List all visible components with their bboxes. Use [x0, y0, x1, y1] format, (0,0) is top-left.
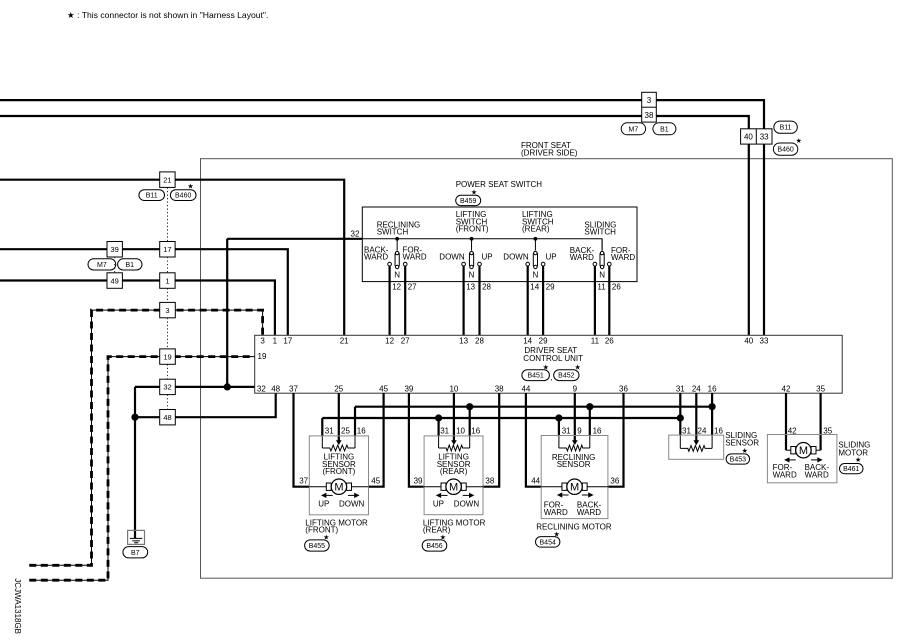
- connector label B459: [456, 195, 481, 205]
- svg-text:25: 25: [334, 385, 343, 394]
- svg-text:17: 17: [283, 336, 292, 345]
- wire: pin 35 to sliding motor: [819, 393, 821, 450]
- connector M7/B1 pins 3,38: [642, 92, 657, 122]
- wire: pin 1 feed: [0, 281, 275, 336]
- svg-text:B461: B461: [843, 466, 859, 473]
- svg-text:★: ★: [187, 183, 193, 191]
- svg-text:21: 21: [340, 336, 349, 345]
- svg-text:49: 49: [111, 276, 119, 285]
- connector B11/B460 pin 17: [160, 242, 175, 258]
- wire: to body ground: [134, 417, 136, 538]
- svg-text:38: 38: [495, 385, 504, 394]
- svg-text:39: 39: [111, 245, 119, 254]
- sliding switch element: [601, 239, 603, 251]
- wire: pin 31 to sliding sensor: [679, 393, 681, 435]
- svg-text:DOWN: DOWN: [439, 253, 465, 262]
- svg-text:31: 31: [562, 426, 571, 435]
- svg-text:1: 1: [165, 276, 169, 285]
- svg-text:27: 27: [408, 283, 417, 292]
- direction arrows lifting rear: [441, 494, 447, 496]
- svg-text:WARD: WARD: [805, 471, 829, 480]
- svg-text:3: 3: [165, 306, 169, 315]
- motor M lifting rear: [441, 483, 446, 490]
- svg-text:3: 3: [647, 96, 652, 105]
- motor leads lifting rear: [424, 486, 483, 488]
- svg-text:B451: B451: [527, 373, 543, 380]
- reclining motor box: [541, 436, 608, 519]
- svg-text:SWITCH: SWITCH: [584, 228, 616, 237]
- svg-text:DOWN: DOWN: [339, 499, 365, 508]
- connector B11/B460 pin 19: [160, 349, 176, 364]
- switch internal bus: [362, 239, 602, 251]
- svg-text:(REAR): (REAR): [522, 225, 550, 234]
- junction: rear sensor 31: [435, 414, 442, 421]
- wire: pin 44 to reclining motor: [526, 393, 541, 487]
- svg-text:DOWN: DOWN: [503, 253, 529, 262]
- svg-text:42: 42: [782, 385, 791, 394]
- svg-text:33: 33: [760, 336, 769, 345]
- svg-text:WARD: WARD: [403, 253, 427, 262]
- svg-text:32: 32: [351, 230, 360, 239]
- svg-text:(REAR): (REAR): [440, 467, 468, 476]
- svg-text:(FRONT): (FRONT): [456, 225, 489, 234]
- ground label B7: [123, 547, 148, 558]
- svg-text:N: N: [599, 271, 605, 280]
- svg-text:26: 26: [605, 336, 614, 345]
- wire: pin 32 ground link: [135, 386, 255, 388]
- svg-text:CONTROL UNIT: CONTROL UNIT: [523, 354, 583, 363]
- svg-text:B1: B1: [660, 126, 669, 133]
- svg-text:32: 32: [257, 385, 266, 394]
- svg-text:16: 16: [714, 426, 723, 435]
- svg-text:MOTOR: MOTOR: [838, 448, 868, 457]
- svg-text:★: ★: [796, 137, 802, 145]
- bus: sensor supply (pin 16): [355, 406, 712, 408]
- motor leads lifting front: [309, 486, 368, 488]
- svg-text:35: 35: [823, 427, 832, 436]
- svg-text:25: 25: [341, 426, 350, 435]
- wire: pin 17 feed: [0, 249, 288, 335]
- svg-text:N: N: [394, 271, 400, 280]
- svg-text:B11: B11: [780, 125, 792, 132]
- svg-text:33: 33: [760, 133, 769, 142]
- resistor: lifting sensor rear: [439, 445, 470, 451]
- svg-text:WARD: WARD: [364, 253, 388, 262]
- svg-text:38: 38: [485, 477, 494, 486]
- svg-text:17: 17: [163, 245, 171, 254]
- svg-text:WARD: WARD: [577, 508, 601, 517]
- svg-text:,: ,: [550, 373, 552, 382]
- svg-text:SENSOR: SENSOR: [557, 460, 591, 469]
- wire: pin 10 to lifting sensor rear wiper: [453, 393, 455, 440]
- svg-text:42: 42: [788, 427, 797, 436]
- svg-text:38: 38: [645, 111, 654, 120]
- wire: pin 21 feed: [0, 180, 344, 336]
- sliding sensor box: [669, 435, 724, 459]
- wire: lifting sensor rear pin 31: [438, 418, 440, 436]
- svg-text:40: 40: [744, 133, 753, 142]
- svg-text:(DRIVER SIDE): (DRIVER SIDE): [521, 148, 578, 157]
- driver seat control unit U1 box: [255, 335, 843, 393]
- resistor: lifting sensor front: [322, 445, 355, 451]
- svg-text:M: M: [570, 482, 579, 494]
- resistor: reclining sensor: [559, 445, 590, 451]
- svg-text:B454: B454: [540, 539, 556, 546]
- motor M lifting front: [326, 483, 331, 490]
- wire: lifting sensor front pin 31: [321, 418, 323, 436]
- motor leads reclining: [541, 486, 608, 488]
- connector B11/B460 pin 1: [160, 273, 175, 289]
- svg-text:M7: M7: [629, 126, 639, 133]
- connector label M7 (left): [88, 259, 116, 270]
- svg-text:16: 16: [708, 385, 717, 394]
- svg-text:B459: B459: [460, 198, 476, 205]
- sliding motor box: [767, 435, 837, 483]
- svg-text:26: 26: [612, 283, 621, 292]
- connector label B460 (top right): [773, 143, 797, 155]
- wire: pin 39 to lifting motor rear: [409, 393, 424, 487]
- svg-text:29: 29: [546, 283, 555, 292]
- svg-text:24: 24: [698, 426, 707, 435]
- connector label B11 (left): [139, 190, 165, 201]
- junction: pin 16 drop: [709, 403, 716, 410]
- wire: switch pin 29 to control unit: [542, 266, 544, 335]
- motor M reclining: [562, 483, 567, 490]
- svg-text:27: 27: [401, 336, 410, 345]
- dotted connector chain (left column): [115, 187, 168, 409]
- wire: switch pin 14 to control unit: [527, 266, 529, 335]
- svg-text:WARD: WARD: [611, 253, 635, 262]
- direction arrows lifting front: [326, 494, 332, 496]
- svg-text:UP: UP: [482, 253, 493, 262]
- svg-text:B456: B456: [426, 543, 442, 550]
- svg-text:31: 31: [440, 426, 449, 435]
- svg-text:16: 16: [357, 426, 366, 435]
- lifting motor rear box: [424, 436, 483, 515]
- svg-text:B460: B460: [777, 147, 793, 154]
- svg-text:40: 40: [744, 336, 753, 345]
- junction: pin 31 drop: [677, 414, 684, 421]
- svg-text:SENSOR: SENSOR: [725, 439, 759, 448]
- reclining switch element: [395, 237, 399, 241]
- svg-text:(FRONT): (FRONT): [322, 467, 355, 476]
- svg-text:37: 37: [299, 477, 308, 486]
- svg-text:36: 36: [610, 477, 619, 486]
- wire: pin 25 to lifting sensor front wiper: [338, 393, 340, 440]
- svg-text:11: 11: [591, 336, 600, 345]
- svg-text:29: 29: [539, 336, 548, 345]
- svg-text:19: 19: [163, 352, 171, 361]
- svg-text:44: 44: [521, 385, 530, 394]
- wire: pin 38 to lifting motor rear: [483, 393, 499, 487]
- connector B11/B460 pin 48: [160, 410, 176, 425]
- connector B11/B460 pin 21: [160, 172, 175, 188]
- svg-text:31: 31: [682, 426, 691, 435]
- svg-text:WARD: WARD: [570, 253, 594, 262]
- svg-text:12: 12: [385, 336, 394, 345]
- junction: reclining sensor 31: [555, 414, 562, 421]
- svg-text:13: 13: [459, 336, 468, 345]
- svg-text:★ : This connector is not show: ★ : This connector is not shown in "Harn…: [67, 10, 268, 20]
- svg-text:39: 39: [414, 477, 423, 486]
- svg-text:UP: UP: [318, 499, 329, 508]
- svg-text:1: 1: [273, 336, 278, 345]
- wire: battery feed to pin 40: [0, 116, 749, 335]
- svg-text:B7: B7: [131, 550, 140, 557]
- connector label B460 (left): [170, 190, 196, 201]
- svg-text:37: 37: [289, 385, 298, 394]
- svg-text:9: 9: [577, 426, 582, 435]
- svg-text:48: 48: [163, 413, 171, 422]
- junction: rear sensor 16: [466, 403, 473, 410]
- wire: pin 45 to lifting motor front: [369, 393, 384, 487]
- svg-text:19: 19: [258, 352, 267, 361]
- svg-text:44: 44: [531, 477, 540, 486]
- svg-text:B452: B452: [558, 373, 574, 380]
- svg-text:35: 35: [816, 385, 825, 394]
- svg-text:16: 16: [593, 426, 602, 435]
- connector M7/B1 pin 39: [107, 242, 122, 258]
- svg-text:16: 16: [471, 426, 480, 435]
- svg-text:(FRONT): (FRONT): [305, 526, 338, 535]
- junction: switch feed on wire 32: [224, 383, 231, 390]
- wire: pin 16 to sliding sensor: [711, 393, 713, 435]
- wire: reclining sensor pin 31: [558, 418, 560, 436]
- connector label B11 (top right): [774, 121, 798, 133]
- svg-text:3: 3: [260, 336, 265, 345]
- svg-text:13: 13: [466, 283, 475, 292]
- svg-text:14: 14: [530, 283, 539, 292]
- svg-text:DOWN: DOWN: [454, 499, 480, 508]
- svg-text:B11: B11: [146, 193, 158, 200]
- shield wire: pin 19: [29, 357, 254, 581]
- svg-text:B460: B460: [175, 193, 191, 200]
- direction arrows reclining: [562, 494, 568, 496]
- bus: sensor return (pin 31): [322, 417, 680, 419]
- svg-text:POWER SEAT SWITCH: POWER SEAT SWITCH: [456, 180, 543, 189]
- svg-text:48: 48: [271, 385, 280, 394]
- power seat switch box: [362, 207, 637, 282]
- lifting switch (rear) element: [534, 237, 538, 241]
- connector M7/B1 pin 49: [107, 273, 122, 289]
- svg-text:B455: B455: [309, 543, 325, 550]
- svg-text:32: 32: [163, 383, 171, 392]
- connector label M7 (top): [621, 123, 645, 135]
- svg-text:UP: UP: [546, 253, 557, 262]
- wire: pin 48 ground link: [135, 393, 276, 417]
- lifting motor front box: [309, 436, 368, 515]
- svg-text:28: 28: [482, 283, 491, 292]
- svg-text:28: 28: [475, 336, 484, 345]
- wire: switch pin 28 to control unit: [478, 266, 480, 335]
- wire: switch pin 11 to control unit: [594, 266, 596, 335]
- direction arrows sliding: [790, 459, 796, 461]
- svg-text:14: 14: [523, 336, 532, 345]
- svg-text:B1: B1: [126, 262, 135, 269]
- motor M sliding: [791, 447, 796, 454]
- wire: battery feed to pin 33: [0, 100, 764, 335]
- svg-text:B453: B453: [730, 457, 746, 464]
- connector label B1 (top): [653, 123, 676, 135]
- svg-text:21: 21: [163, 175, 171, 184]
- svg-text:39: 39: [404, 385, 413, 394]
- wire: pin 37 to lifting motor front: [294, 393, 310, 487]
- svg-text:24: 24: [692, 385, 701, 394]
- connector B11/B460 pin 3: [160, 302, 176, 317]
- svg-text:9: 9: [573, 385, 578, 394]
- wire: pin 9 to reclining sensor wiper: [574, 393, 576, 440]
- svg-text:N: N: [469, 271, 475, 280]
- connector B11/B460 pin 32: [160, 379, 176, 394]
- wire: pin 42 to sliding motor: [785, 393, 787, 450]
- svg-text:M: M: [334, 482, 343, 494]
- svg-text:12: 12: [392, 283, 401, 292]
- lifting switch (front) element: [470, 237, 474, 241]
- wire: switch pin 13 to control unit: [463, 266, 465, 335]
- svg-text:11: 11: [597, 283, 606, 292]
- front seat (driver side) enclosure box: [201, 159, 893, 579]
- svg-text:45: 45: [371, 477, 380, 486]
- svg-text:10: 10: [456, 426, 465, 435]
- junction: ground node: [131, 414, 138, 421]
- svg-text:SWITCH: SWITCH: [377, 228, 409, 237]
- wire: reclining sensor pin 16: [589, 407, 591, 436]
- svg-text:UP: UP: [433, 499, 444, 508]
- wire: lifting sensor front pin 16: [354, 407, 356, 436]
- resistor: sliding sensor: [680, 446, 712, 452]
- svg-text:10: 10: [449, 385, 458, 394]
- svg-text:M: M: [799, 445, 808, 457]
- junction: reclining sensor 16: [586, 403, 593, 410]
- svg-text:31: 31: [325, 426, 334, 435]
- wire: switch pin 12 to control unit: [389, 266, 391, 335]
- wire: switch pin 26 to control unit: [608, 266, 610, 335]
- svg-text:(REAR): (REAR): [423, 526, 451, 535]
- connector B11/B460 pins 40,33: [741, 129, 772, 144]
- svg-text:RECLINING MOTOR: RECLINING MOTOR: [536, 522, 612, 531]
- svg-text:45: 45: [379, 385, 388, 394]
- ground B7 symbol: [128, 530, 145, 544]
- svg-text:31: 31: [676, 385, 685, 394]
- svg-text:36: 36: [619, 385, 628, 394]
- svg-text:N: N: [533, 271, 539, 280]
- shield wire: pin 3: [29, 310, 262, 565]
- wire: switch pin 27 to control unit: [404, 266, 406, 335]
- wire: lifting sensor rear pin 16: [469, 407, 471, 436]
- svg-text:WARD: WARD: [544, 508, 568, 517]
- wire: pin 24 to sliding sensor wiper: [695, 393, 697, 440]
- svg-text:M7: M7: [97, 262, 107, 269]
- svg-text:JCJWA1318GB: JCJWA1318GB: [13, 578, 22, 634]
- connector label B1 (left): [118, 259, 142, 270]
- wire: pin 36 to reclining motor: [608, 393, 624, 487]
- wire: node 32 switch feed: [227, 238, 362, 240]
- svg-text:M: M: [449, 482, 458, 494]
- svg-text:WARD: WARD: [773, 471, 797, 480]
